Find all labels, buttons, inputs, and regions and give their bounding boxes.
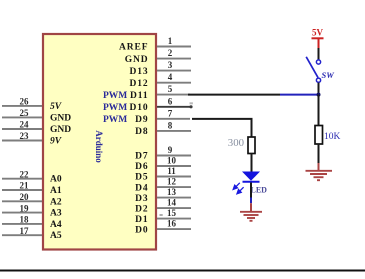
svg-text:7: 7 <box>168 108 173 118</box>
svg-text:9V: 9V <box>50 137 62 147</box>
svg-text:18: 18 <box>20 215 30 225</box>
svg-text:5: 5 <box>168 84 173 94</box>
svg-text:14: 14 <box>167 198 177 208</box>
svg-text:15: 15 <box>167 208 177 218</box>
svg-text:A3: A3 <box>50 209 62 219</box>
svg-text:D0: D0 <box>135 225 148 235</box>
svg-text:A2: A2 <box>50 197 62 207</box>
svg-text:10K: 10K <box>324 132 341 142</box>
svg-text:A1: A1 <box>50 186 62 196</box>
svg-text:6: 6 <box>168 96 173 106</box>
svg-text:D9: D9 <box>135 115 148 125</box>
svg-text:D5: D5 <box>135 173 148 183</box>
svg-text:12: 12 <box>167 177 177 187</box>
svg-text:25: 25 <box>20 108 30 118</box>
svg-text:26: 26 <box>20 97 30 107</box>
svg-text:D7: D7 <box>135 152 148 162</box>
svg-text:20: 20 <box>20 192 30 202</box>
svg-text:5V: 5V <box>50 102 62 112</box>
svg-text:10: 10 <box>167 156 177 166</box>
svg-text:D2: D2 <box>135 204 148 214</box>
svg-text:11: 11 <box>167 166 176 176</box>
svg-text:16: 16 <box>167 219 177 229</box>
svg-text:2: 2 <box>168 48 173 58</box>
svg-text:D1: D1 <box>135 215 148 225</box>
svg-text:8: 8 <box>168 120 173 130</box>
svg-text:13: 13 <box>167 187 177 197</box>
svg-text:D4: D4 <box>135 183 148 193</box>
svg-text:Arduino: Arduino <box>94 130 104 163</box>
svg-text:5V: 5V <box>312 28 324 38</box>
svg-text:17: 17 <box>20 226 30 236</box>
svg-text:300: 300 <box>228 137 244 149</box>
svg-text:19: 19 <box>20 203 30 213</box>
svg-text:D3: D3 <box>135 194 148 204</box>
svg-text:A0: A0 <box>50 175 62 185</box>
svg-text:PWM: PWM <box>103 103 127 113</box>
svg-text:21: 21 <box>20 181 30 191</box>
svg-text:PWM: PWM <box>103 91 127 101</box>
svg-text:9: 9 <box>168 145 173 155</box>
svg-text:D12: D12 <box>129 79 148 89</box>
svg-text:GND: GND <box>125 55 149 65</box>
svg-text:GND: GND <box>50 125 71 135</box>
svg-text:D13: D13 <box>129 67 148 77</box>
svg-text:D10: D10 <box>129 103 148 113</box>
svg-text:A5: A5 <box>50 231 62 241</box>
svg-text:D11: D11 <box>130 91 149 101</box>
svg-text:3: 3 <box>168 60 173 70</box>
svg-text:4: 4 <box>168 72 173 82</box>
svg-text:1: 1 <box>168 36 173 46</box>
svg-text:SW: SW <box>322 70 336 80</box>
svg-text:D6: D6 <box>135 162 148 172</box>
svg-text:PWM: PWM <box>103 115 127 125</box>
svg-text:23: 23 <box>20 131 30 141</box>
svg-text:22: 22 <box>20 169 30 179</box>
svg-text:AREF: AREF <box>119 43 148 53</box>
svg-text:24: 24 <box>20 120 30 130</box>
svg-text:LED: LED <box>251 186 268 195</box>
svg-text:GND: GND <box>50 113 71 123</box>
svg-text:A4: A4 <box>50 220 62 230</box>
svg-text:D8: D8 <box>135 127 148 137</box>
